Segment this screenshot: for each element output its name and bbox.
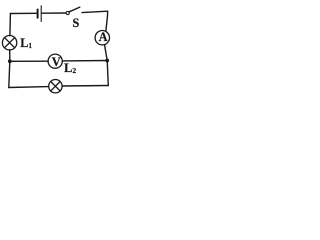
lamp L2 circle	[49, 80, 62, 93]
wire voltmeter to right junction	[62, 60, 107, 62]
node junction right	[105, 59, 109, 63]
wire bottom-left corner up to left junction	[9, 61, 10, 87]
wire ammeter to right junction	[105, 45, 108, 61]
voltmeter V circle	[48, 54, 62, 68]
wire left junction to voltmeter	[10, 60, 48, 62]
wire battery to switch	[42, 12, 66, 14]
wire top-right corner down to ammeter	[106, 11, 108, 31]
switch S pivot	[66, 11, 69, 14]
svg-text:L2: L2	[64, 61, 76, 75]
svg-text:V: V	[52, 55, 61, 69]
svg-text:A: A	[99, 30, 108, 44]
wire left junction up to lamp L1	[9, 50, 11, 61]
switch S lever	[69, 7, 80, 12]
lamp L2 cross	[51, 82, 60, 91]
battery positive plate (long thin)	[40, 6, 42, 22]
svg-text:S: S	[72, 16, 79, 30]
lamp L1 cross	[5, 38, 15, 48]
wire lamp L1 up to top-left corner	[9, 14, 12, 36]
ammeter A circle	[95, 31, 109, 45]
wire right junction down to bottom-right corner	[107, 61, 108, 86]
wire lamp L2 to bottom-left corner	[9, 86, 49, 89]
lamp L1 circle	[2, 36, 16, 50]
wire top-left to battery	[10, 12, 36, 14]
battery negative plate (short thick)	[37, 10, 39, 18]
wire switch to top-right corner	[82, 11, 108, 12]
svg-text:L1: L1	[20, 36, 32, 50]
wire bottom-right corner to lamp L2	[62, 85, 108, 88]
node junction left	[8, 59, 12, 63]
